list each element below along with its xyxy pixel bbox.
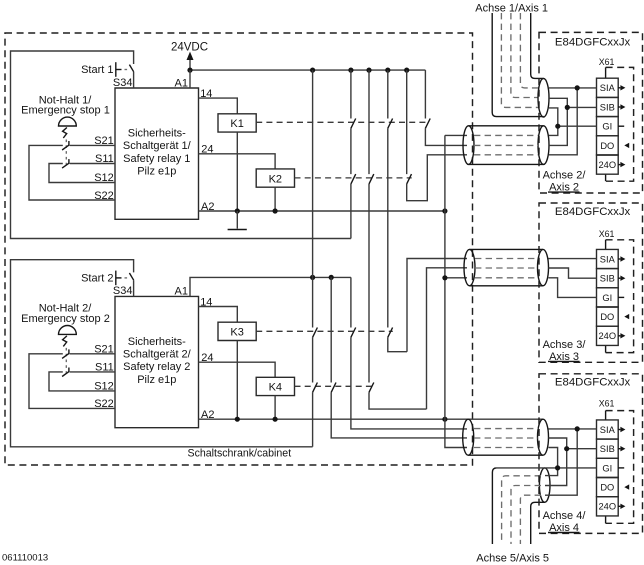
wire column K1 to cable1 conductor2 (x425.4) [425,70,467,145]
svg-text:S12: S12 [94,380,114,392]
terminal labels S21 S11 S12 S22 relay1 [94,135,114,202]
svg-text:K2: K2 [269,173,282,185]
svg-text:X61: X61 [599,57,615,67]
terminal SIA axis3 [597,249,626,268]
junction dots A1 bus relay2 [310,275,334,280]
terminal GI axis3 [597,288,625,307]
cable 3 shield ellipse right [538,419,549,455]
contact emergency-stop channel2 [62,159,69,168]
svg-text:14: 14 [200,88,212,100]
contact K3 aux on chain2 [388,328,393,338]
junction dot GI axis2 [555,124,560,129]
wire terminal 14 relay1 to K1 [199,88,238,114]
wire SIA axis3 [549,258,597,260]
wire GI axis4 riser [545,448,558,476]
wire A2 rail relay1 [199,201,445,213]
ground symbol [228,211,247,230]
svg-text:SIA: SIA [600,83,616,93]
svg-text:Pilz e1p: Pilz e1p [137,165,176,177]
svg-text:SIB: SIB [600,102,615,112]
start button S3 (Start 2) [81,271,134,298]
svg-text:K4: K4 [269,382,282,394]
contact emergency-stop channel1 [62,141,69,150]
wire column K4 to cable3 conductor2 (x331.2) [331,277,467,438]
wire K2 bottom to A2 rail [274,187,276,211]
svg-text:061110013: 061110013 [2,552,48,563]
wire SIB axis4 into terminal [567,448,597,450]
connector X61 label axis2 [599,57,615,67]
safety relay U1 box (Pilz e1p) [115,88,199,219]
terminal SIB axis3 [597,269,626,288]
label Achse 3/Axis 3 [543,339,587,363]
safety relay U2 box (Pilz e1p) [115,296,199,427]
junction dot SIA axis2 [575,85,580,90]
svg-text:Start 2: Start 2 [81,272,113,284]
svg-text:Safety relay 2: Safety relay 2 [123,361,190,373]
wire SIB axis3 [549,268,597,278]
svg-text:A2: A2 [201,409,214,421]
svg-text:DO: DO [600,141,614,151]
svg-text:Sicherheits-: Sicherheits- [128,128,186,140]
wire terminal 24 relay2 to K4 [199,352,276,377]
wire GI axis2 into terminal [558,125,597,127]
svg-text:Emergency stop 1: Emergency stop 1 [21,105,110,117]
wire A1 relay1 from bus [175,70,190,89]
wire 24V bus [190,69,425,71]
wire column 24V feed to relay2 (x312.6) [312,70,314,277]
wire S21 channel loop relay2 [29,354,115,409]
svg-text:S21: S21 [94,344,114,356]
start button S1 loop wire (top + left side) [11,51,351,239]
svg-text:GI: GI [602,122,612,132]
cable to axis1 conductors (dashed) [501,13,538,107]
wire S11/S12 channel loop relay2 [49,372,115,391]
wire K1 bottom to A2 rail [236,132,238,211]
svg-text:24: 24 [201,352,213,364]
svg-text:Achse 5/Axis 5: Achse 5/Axis 5 [476,552,549,564]
svg-text:Pilz e1p: Pilz e1p [137,374,176,386]
svg-text:E84DGFCxxJx: E84DGFCxxJx [555,37,631,49]
contact K1 aux on start loop1 [351,119,356,129]
wire SIB axis2 into terminal [567,106,596,108]
svg-text:Sicherheits-: Sicherheits- [128,336,186,348]
contactor coil K4 [256,377,294,395]
wire SIA axis2 [549,87,597,89]
junction dot SIB axis4 [564,446,569,451]
contact K1 aux (cable1) [425,119,430,129]
wire SIB axis4 riser [545,438,567,486]
cable to axis1 shield ellipse [538,78,549,117]
svg-text:K3: K3 [230,327,243,339]
terminal 24O axis2 [597,155,626,174]
node 24VDC supply arrow [171,42,208,71]
svg-text:SIA: SIA [600,425,616,435]
connector X61 label axis3 [599,229,615,239]
junction dots A2 relay2 [235,417,448,422]
dashed link line K1 auxiliary contacts (row1) [256,121,428,123]
terminal DO axis2 [597,136,630,155]
svg-text:S22: S22 [94,190,114,202]
contact emergency-stop2 channel2 [62,368,69,377]
label Schaltschrank/cabinet [188,448,292,460]
contact K4 aux on start loop2 [313,383,318,393]
svg-text:Achse 3/: Achse 3/ [543,339,587,351]
junction dot SIA axis4 [575,426,580,431]
junction dot GI axis4 [555,465,560,470]
svg-text:Achse 1/Axis 1: Achse 1/Axis 1 [475,3,548,15]
cable 2 shield cylinder body [470,249,544,285]
terminal SIA axis4 [597,420,626,439]
svg-text:Schaltgerät 2/: Schaltgerät 2/ [123,349,192,361]
terminal GI axis2 [597,117,625,136]
cable 2 shield ellipse right [538,249,549,285]
start button S3 loop wire relay2 [11,260,313,447]
connector X61 dashed outline axis3 [606,240,634,353]
svg-text:S11: S11 [95,362,114,374]
cable to axis5 sheath lines [492,468,544,544]
wire terminal 14 relay2 to K3 [199,296,238,322]
wire SIA axis4 [549,428,597,430]
svg-text:E84DGFCxxJx: E84DGFCxxJx [555,377,631,389]
wire SIB axis2 riser [549,98,567,145]
contact emergency-stop2 channel1 [62,349,69,358]
svg-text:K1: K1 [230,118,243,130]
label Achse 5/Axis 5 [476,552,549,564]
start button S1 (Start 1) [81,62,134,89]
wire column start loop relay1 with K1 K2 contacts (x350.9) [350,70,352,238]
svg-text:SIB: SIB [600,444,615,454]
contact K4 aux on chain [369,383,374,393]
svg-text:GI: GI [602,463,612,473]
wire column cable2 conductor1 riser (x407) [407,259,467,352]
contact K2 aux on start loop1 [351,174,356,184]
cable 1 conductors (dashed) [474,135,538,154]
wire column K2+K4 series chain (x369) [369,70,427,409]
junction dots A2 relay1 [235,208,448,213]
dashed link line K4 auxiliary contacts (row4) [295,385,375,387]
terminal 24O axis3 [597,326,626,345]
svg-text:X61: X61 [599,229,615,239]
E84DGFCxxJx device dashed box axis3 [539,203,643,362]
terminal GI axis4 [597,458,625,477]
label Achse 4/Axis 4 [543,510,587,534]
svg-text:Achse 4/: Achse 4/ [543,510,587,522]
wire S11/S12 channel loop relay1 [49,164,115,183]
connector X61 dashed outline axis2 [606,67,634,181]
svg-text:DO: DO [600,483,614,493]
svg-text:Achse 2/: Achse 2/ [543,169,587,181]
svg-text:S11: S11 [95,153,114,165]
svg-text:14: 14 [200,296,212,308]
junction dot 0V at cable2 [442,275,447,280]
cable to axis5 shield ellipse [539,468,550,502]
svg-text:Emergency stop 2: Emergency stop 2 [21,313,110,325]
svg-text:S34: S34 [113,77,133,89]
cable 2 conductors (dashed) [475,259,538,278]
drawing number 061110013 [2,552,48,563]
contact K2 aux (cable1) [407,174,412,184]
cable 3 shield ellipse left [463,419,474,455]
dashed link line K3 auxiliary contacts (row3) [256,330,393,332]
terminal DO axis3 [597,307,630,326]
contact K3 aux (cable chain) [351,328,356,338]
terminal 24O axis4 [597,497,626,516]
emergency stop S4 mushroom head (Not-Halt 2) [21,303,110,376]
svg-text:A2: A2 [201,201,214,213]
wire terminal 24 relay1 to K2 [199,144,276,169]
cable 1 shield ellipse right [538,126,549,165]
E84DGFCxxJx device dashed box axis4 [539,374,643,534]
contact K1 aux on chain [388,119,393,129]
wire 0V/GI rail column (x444.9) [445,135,467,447]
svg-text:S12: S12 [94,172,114,184]
junction dot SIB axis2 [565,105,570,110]
wire GI axis3 [549,278,597,298]
E84DGFCxxJx device dashed box axis2 [539,32,643,193]
cable to axis5 conductors (dashed) [502,476,541,544]
wire GI axis2 riser [549,108,558,135]
label E84DGFCxxJx axis3 [555,206,631,218]
label Achse 2/Axis 2 [543,169,587,193]
cable 3 shield cylinder body bottom [468,454,543,456]
svg-text:GI: GI [602,293,612,303]
wire S21 channel loop relay1 [29,145,115,200]
wire A1 bus relay2 [175,277,351,297]
wire column cable2 conductor2 riser (x426.5) [427,268,468,409]
terminal SIB axis4 [597,439,626,458]
junction dots on 24V bus [187,68,409,73]
cable 1 shield ellipse left [463,126,474,165]
svg-text:24O: 24O [599,502,617,512]
svg-text:S21: S21 [94,135,114,147]
svg-text:S34: S34 [113,285,133,297]
wire SIA chain drop to cable1 conductor3 [549,88,577,155]
wire A2 rail relay2 extending as cable3 sheath [199,409,544,421]
terminal DO axis4 [597,478,630,497]
cable 2 shield ellipse left [464,249,475,285]
contactor coil K2 [256,169,294,187]
cable to axis1 sheath lines [492,13,543,117]
wire GI axis4 into terminal (along axis5 sheath) [497,467,597,469]
terminal labels S21 S11 S12 S22 relay2 [94,344,114,411]
wire column K2 to cable1 conductor3 (x406.7) [407,70,467,201]
contact K3 aux on start loop2 [313,328,318,338]
cable 1 shield cylinder body [469,126,544,165]
dashed link line K2 auxiliary contacts (row2) [295,177,412,179]
wire K3 bottom to A2 rail relay2 [236,341,238,420]
connector X61 dashed outline axis4 [606,411,634,524]
wire column start loop relay2 with K3 K4 contacts [312,277,314,446]
label E84DGFCxxJx axis2 [555,37,631,49]
svg-text:Safety relay 1: Safety relay 1 [123,153,190,165]
emergency stop S2 mushroom head (Not-Halt 1) [21,94,110,167]
contact K2 aux on chain [369,174,374,184]
svg-text:A1: A1 [175,77,188,89]
contact K4 aux (cable chain) [331,383,336,393]
svg-text:24O: 24O [599,331,617,341]
label Achse 1/Axis 1 [475,3,548,15]
cable 3 conductors (dashed) [474,429,538,448]
svg-text:DO: DO [600,312,614,322]
svg-text:Start 1: Start 1 [81,64,113,76]
svg-text:X61: X61 [599,399,615,409]
svg-text:SIA: SIA [600,254,616,264]
svg-text:A1: A1 [175,286,188,298]
wire column K3 to cable3 conductor1 (x350.9 lower) [351,277,467,429]
svg-text:E84DGFCxxJx: E84DGFCxxJx [555,206,631,218]
svg-text:24VDC: 24VDC [171,42,208,54]
label E84DGFCxxJx axis4 [555,377,631,389]
wire column K1+K3 series chain (x387.8) [388,70,407,352]
terminal SIA axis2 [597,78,626,97]
svg-text:Schaltgerät 1/: Schaltgerät 1/ [123,140,192,152]
connector X61 label axis4 [599,399,615,409]
wire SIA chain drop to axis5 cable [545,429,577,495]
cabinet enclosure dashed border (Schaltschrank) [5,33,473,465]
terminal SIB axis2 [597,97,626,116]
svg-text:SIB: SIB [600,274,615,284]
svg-text:24: 24 [201,144,213,156]
svg-text:24O: 24O [599,160,617,170]
svg-text:S22: S22 [94,398,114,410]
svg-text:Schaltschrank/cabinet: Schaltschrank/cabinet [188,448,292,460]
wire K4 bottom to A2 rail relay2 [274,396,276,420]
contactor coil K3 [218,322,256,340]
contactor coil K1 [218,114,256,132]
